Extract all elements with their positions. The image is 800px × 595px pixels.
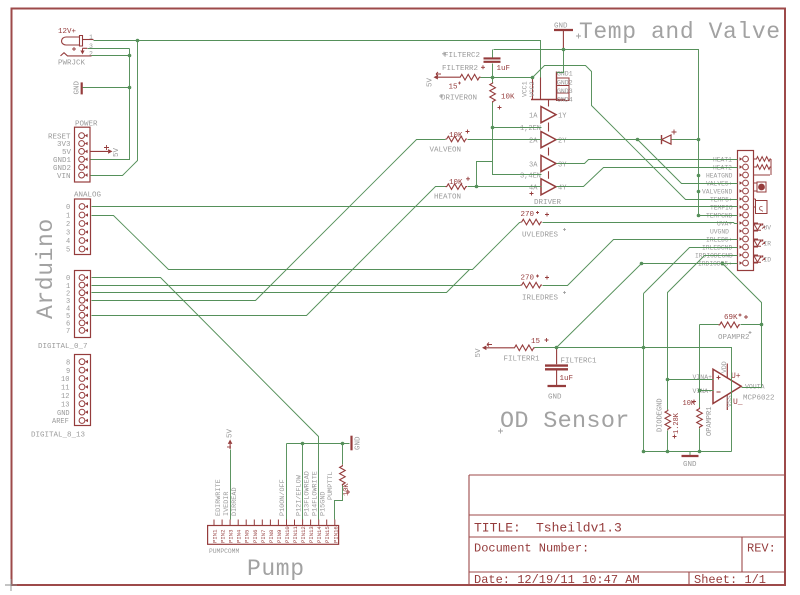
svg-text:TEMPGND: TEMPGND	[706, 213, 733, 220]
svg-text:0: 0	[66, 204, 70, 212]
svg-text:PIN7: PIN7	[260, 530, 267, 543]
wire GND: jack pin2	[92, 55, 130, 57]
svg-text:IRLEDGND: IRLEDGND	[702, 245, 732, 252]
svg-text:ID: ID	[764, 257, 772, 264]
svg-text:13: 13	[61, 401, 69, 409]
wire ground rail (OD)	[644, 451, 732, 453]
5V supply arrow at POWER	[90, 150, 108, 152]
svg-text:Tsheildv1.3: Tsheildv1.3	[536, 521, 622, 536]
svg-text:PUMPTTL: PUMPTTL	[327, 471, 335, 500]
svg-text:5V: 5V	[427, 77, 435, 87]
wire VOUTA	[742, 387, 762, 389]
svg-text:2: 2	[66, 221, 70, 229]
wire 2Y branch to VALVE5+	[638, 140, 738, 184]
svg-text:UV: UV	[764, 225, 772, 232]
wire DIGITAL0 to pump pin14	[92, 278, 319, 520]
svg-text:3A: 3A	[529, 161, 538, 169]
wire 2Y to diode	[557, 139, 662, 141]
svg-text:9: 9	[66, 368, 70, 376]
svg-text:HEATGND: HEATGND	[706, 173, 733, 180]
wire 4Y to HEAT2	[557, 168, 738, 187]
svg-text:GND: GND	[57, 410, 70, 418]
wire VINA+	[668, 379, 714, 381]
wire 3Y to HEAT1	[557, 160, 738, 164]
wire pump top rail	[287, 443, 350, 445]
LED IR	[754, 239, 766, 247]
wire VALVEON to 2A	[468, 139, 542, 141]
svg-text:7: 7	[66, 328, 70, 336]
resistor OPAMPR2 69K (feedback)	[719, 322, 741, 328]
svg-text:GND3: GND3	[557, 88, 573, 95]
svg-text:Arduino: Arduino	[33, 218, 59, 319]
svg-text:Document Number:: Document Number:	[474, 542, 589, 556]
wire pump P10 vertical	[286, 444, 288, 520]
svg-text:DIGITAL_8_13: DIGITAL_8_13	[31, 432, 86, 440]
svg-text:VDD: VDD	[721, 361, 728, 373]
svg-text:U+: U+	[731, 372, 741, 381]
svg-text:PIN3: PIN3	[228, 530, 235, 543]
svg-text:1uF: 1uF	[497, 65, 511, 73]
connector POWER	[75, 127, 91, 182]
wire UVLEDRES to UVA+	[543, 223, 738, 224]
svg-text:PIN9: PIN9	[276, 530, 283, 543]
driver buffer gate 1 (1A/1Y)	[541, 107, 556, 123]
wire 12V branch to VIN	[91, 41, 138, 176]
title block frame	[469, 475, 785, 585]
svg-text:VALVE5+: VALVE5+	[706, 181, 733, 188]
svg-text:FILTERR2: FILTERR2	[442, 65, 478, 73]
svg-text:PIN11: PIN11	[292, 526, 299, 543]
wire DIODEGND resistor bottom to rail	[667, 431, 669, 452]
svg-text:IVEDIR: IVEDIR	[223, 492, 231, 516]
svg-text:3,4EN: 3,4EN	[520, 173, 541, 181]
svg-text:GND2: GND2	[53, 165, 71, 173]
ground symbol GND (top, above driver)	[554, 30, 573, 49]
wire: 1,2EN	[493, 127, 542, 129]
svg-text:HEAT2: HEAT2	[713, 165, 732, 172]
svg-text:AREF: AREF	[52, 418, 69, 426]
svg-text:TEMP5+: TEMP5+	[710, 197, 733, 204]
op-amp U2 MCP6022	[713, 364, 741, 411]
svg-text:PIN14: PIN14	[316, 526, 323, 543]
connector DIGITAL_0_7	[75, 271, 91, 338]
svg-text:MCP6022: MCP6022	[743, 395, 775, 403]
svg-text:IRLED5+: IRLED5+	[706, 237, 733, 244]
connector ANALOG	[75, 199, 91, 255]
temperature sensor element	[754, 199, 768, 214]
svg-text:ANALOG: ANALOG	[74, 192, 102, 200]
svg-text:PUMPCOMM: PUMPCOMM	[209, 548, 239, 555]
wire PUMPTTL resistor	[335, 444, 343, 520]
svg-text:3V3: 3V3	[57, 141, 71, 149]
svg-text:2: 2	[89, 50, 93, 57]
connector DIGITAL_8_13	[75, 355, 91, 426]
svg-text:FILTERC1: FILTERC1	[561, 358, 598, 366]
wire ANALOG1 to UVLEDRES	[92, 216, 521, 270]
svg-text:P13FLOWREAD: P13FLOWREAD	[303, 471, 311, 516]
svg-text:PIN16: PIN16	[332, 526, 339, 543]
svg-text:2A: 2A	[529, 137, 538, 145]
wire FILTERR1 node	[535, 348, 732, 452]
wire pump 5V vertical	[230, 450, 232, 520]
svg-text:270: 270	[521, 211, 535, 219]
wire IRLEDRES to IRLED5+	[543, 240, 738, 286]
svg-text:IRLEDRES: IRLEDRES	[522, 295, 559, 303]
wire 12V: jack pin1 to driver VCC2	[94, 41, 541, 78]
svg-text:PIN4: PIN4	[236, 529, 243, 543]
svg-text:5V: 5V	[113, 147, 121, 157]
svg-text:VCC1: VCC1	[522, 81, 529, 97]
svg-text:DRIVERON: DRIVERON	[441, 95, 477, 103]
ground symbol GND (pump, rotated)	[350, 436, 352, 451]
ground symbol GND (left of PWRJCK area)	[82, 82, 83, 94]
svg-text:PIN6: PIN6	[252, 530, 259, 543]
svg-text:UVGND: UVGND	[710, 229, 729, 236]
wire DIGITAL2	[92, 270, 470, 293]
svg-text:15: 15	[449, 84, 459, 92]
svg-text:8: 8	[66, 359, 70, 367]
svg-text:RESET: RESET	[48, 133, 71, 141]
svg-text:4A: 4A	[529, 185, 538, 193]
wire: EN tie to HEATON node	[477, 162, 493, 187]
resistor IRLEDRES 270	[521, 282, 543, 288]
svg-text:10K: 10K	[449, 179, 463, 187]
svg-text:GND: GND	[355, 436, 363, 450]
resistor FILTERR1 15	[513, 345, 535, 351]
wire GND: jack pin3	[88, 48, 130, 50]
svg-text:PIN15: PIN15	[324, 526, 331, 543]
driver buffer gate 2 (2A/2Y)	[541, 132, 556, 148]
svg-text:U_: U_	[733, 398, 743, 407]
LED ID	[754, 255, 766, 263]
svg-text:FILTERC2: FILTERC2	[444, 52, 480, 60]
svg-text:DRIVER: DRIVER	[534, 199, 562, 207]
svg-text:HEATON: HEATON	[434, 194, 461, 202]
svg-text:1: 1	[89, 34, 93, 41]
svg-text:1: 1	[66, 213, 70, 221]
svg-text:PIN10: PIN10	[284, 526, 291, 543]
wire GND: vertical bus to GND1 of POWER	[91, 49, 130, 160]
resistor OPAMPR1 10K (vertical)	[697, 408, 703, 429]
svg-text:1.28K: 1.28K	[673, 412, 681, 434]
resistor UVLEDRES 270	[521, 219, 543, 225]
svg-text:11: 11	[61, 385, 69, 393]
svg-text:UVLEDRES: UVLEDRES	[522, 232, 559, 240]
svg-text:2Y: 2Y	[558, 137, 567, 145]
svg-text:PIN8: PIN8	[268, 530, 275, 543]
connector TEMP/VALVE header (right side, 14 pins)	[738, 151, 754, 271]
svg-text:TITLE:: TITLE:	[474, 521, 521, 536]
svg-text:OD Sensor: OD Sensor	[500, 408, 630, 435]
pump pin labels PIN1-PIN16 (rotated)	[212, 526, 340, 543]
svg-text:3: 3	[66, 230, 70, 238]
svg-text:OPAMPR1: OPAMPR1	[706, 407, 714, 436]
wire: pullup resistor to EN pins	[493, 103, 542, 175]
svg-text:5: 5	[66, 247, 70, 255]
wire DIGITAL1 to IRLEDRES	[92, 285, 521, 287]
wire pump P12 vertical	[302, 444, 304, 520]
svg-text:5V: 5V	[227, 428, 235, 438]
driver buffer gate 4 (4A/4Y)	[541, 179, 556, 195]
svg-text:IR: IR	[764, 241, 772, 248]
svg-text:DIRREAD: DIRREAD	[231, 487, 239, 516]
corner reference cross	[5, 579, 17, 591]
resistor R pullup 10K (vertical at driver)	[490, 82, 496, 103]
svg-text:VALVEON: VALVEON	[430, 147, 462, 155]
svg-text:GND: GND	[74, 80, 82, 94]
svg-text:DIGITAL_0_7: DIGITAL_0_7	[38, 343, 88, 351]
capacitor FILTERC1	[545, 348, 568, 385]
svg-text:Date: 12/19/11 10:47 AM: Date: 12/19/11 10:47 AM	[474, 573, 640, 587]
svg-text:PIN13: PIN13	[308, 526, 315, 543]
wire 5V wrap to TEMP5+	[533, 66, 738, 200]
svg-text:5V: 5V	[475, 348, 483, 358]
svg-text:10K: 10K	[501, 94, 515, 102]
svg-text:1A: 1A	[529, 113, 538, 121]
svg-text:3Y: 3Y	[558, 161, 567, 169]
svg-text:4: 4	[66, 238, 70, 246]
svg-text:12V+: 12V+	[58, 28, 77, 36]
svg-text:DIODEGND: DIODEGND	[657, 398, 665, 432]
svg-text:VALVEGND: VALVEGND	[702, 189, 732, 196]
capacitor FILTERC2	[484, 58, 501, 61]
svg-text:PIN5: PIN5	[244, 530, 251, 543]
svg-text:PWRJCK: PWRJCK	[58, 60, 86, 68]
svg-text:POWER: POWER	[75, 121, 98, 129]
svg-text:12: 12	[61, 393, 69, 401]
5V supply arrow (FILTERR1, pointing left)	[482, 343, 513, 351]
ground symbol GND (FILTERC1)	[548, 385, 567, 387]
wire IRDIODEGND to diode sense	[668, 256, 738, 410]
svg-text:10K: 10K	[343, 483, 351, 496]
wire GND: stub to driver GND pins	[557, 50, 564, 73]
svg-text:IRDIODE5+: IRDIODE5+	[698, 261, 732, 268]
svg-text:VCC2: VCC2	[529, 81, 536, 97]
wire 5V node: filter to VCC1	[481, 77, 533, 79]
wire ANALOG0 to TEMPIO	[92, 206, 738, 208]
LED UV	[754, 223, 766, 231]
svg-text:10K: 10K	[449, 132, 463, 140]
svg-text:VINA-: VINA-	[693, 388, 713, 395]
svg-text:10: 10	[61, 376, 69, 384]
svg-text:GND1: GND1	[557, 71, 573, 78]
wire GND: top rail	[494, 50, 738, 216]
wire feedback 69K left to VINA-	[700, 325, 719, 408]
svg-text:1,2EN: 1,2EN	[520, 125, 541, 133]
svg-text:69K: 69K	[724, 314, 738, 322]
svg-text:GND1: GND1	[53, 157, 72, 165]
svg-text:GND: GND	[683, 461, 697, 469]
5V supply arrow (FILTERR2, pointing left)	[434, 72, 460, 79]
svg-text:1Y: 1Y	[558, 112, 567, 120]
svg-text:GND: GND	[548, 394, 562, 402]
resistor PUMPTTL 10K (vertical)	[340, 465, 346, 486]
svg-text:GND4: GND4	[557, 97, 573, 104]
valve motor symbol	[754, 182, 767, 192]
wire GND: left GND symbol to bus	[83, 87, 130, 89]
driver buffer gate 3 (3A/3Y)	[541, 155, 556, 171]
resistor DIODEGND 1.28K (vertical)	[665, 410, 671, 431]
resistor HEATON 10K	[446, 184, 468, 190]
svg-text:UVA+: UVA+	[717, 221, 732, 228]
5V supply arrow (pump, pointing up)	[227, 440, 232, 450]
svg-text:Sheet: 1/1: Sheet: 1/1	[694, 573, 766, 587]
svg-text:HEAT1: HEAT1	[713, 157, 732, 164]
heater resistor elements (rows HEAT1/HEAT2)	[754, 157, 772, 175]
svg-text:VIN: VIN	[57, 173, 71, 181]
svg-text:P10ON/OFF: P10ON/OFF	[279, 479, 287, 516]
svg-text:15: 15	[531, 338, 541, 346]
svg-text:1uF: 1uF	[560, 375, 574, 383]
wire IRDIODE5+ row	[642, 263, 738, 265]
svg-text:4Y: 4Y	[558, 185, 567, 193]
svg-text:FILTERR1: FILTERR1	[504, 356, 541, 364]
svg-text:Pump: Pump	[247, 556, 305, 582]
wire: cap bottom to 5V node	[492, 64, 494, 83]
svg-text:REV:: REV:	[747, 542, 776, 556]
diode D1	[662, 130, 677, 145]
wire 5V: cap top to GND rail	[492, 50, 494, 58]
wire 5V to IRDIODE5+	[557, 264, 642, 348]
power jack PWRJCK	[61, 36, 94, 56]
wire 69K right to VOUTA	[741, 324, 762, 326]
driver IC U1 power pins VCC1 VCC2 GND1-GND4	[531, 72, 569, 179]
svg-text:5V: 5V	[62, 149, 72, 157]
svg-text:GND2: GND2	[557, 80, 573, 87]
wire DIGITAL5 to HEATON	[92, 187, 446, 316]
svg-text:IRDIODEGND: IRDIODEGND	[695, 253, 733, 260]
svg-text:GND: GND	[554, 23, 568, 31]
svg-text:OPAMPR2: OPAMPR2	[718, 334, 750, 342]
svg-text:PIN2: PIN2	[220, 530, 227, 543]
ground symbol GND (op-amp rail)	[682, 452, 699, 456]
wire diode to GND bus	[672, 139, 699, 141]
svg-text:PIN12: PIN12	[300, 526, 307, 543]
svg-text:TEMPIO: TEMPIO	[710, 205, 733, 212]
wire HEATON to 4A	[468, 186, 542, 188]
svg-text:EDIRWRITE: EDIRWRITE	[215, 479, 223, 516]
resistor VALVEON 10K	[446, 136, 468, 142]
svg-text:PIN1: PIN1	[212, 529, 219, 543]
wire DIGITAL3 to VALVEON	[92, 140, 446, 301]
svg-text:Temp and Valve: Temp and Valve	[579, 19, 781, 45]
wire IRDIODE5+ branch to op-amp output net	[723, 264, 762, 388]
wire vertical to rail x=643.5	[643, 294, 645, 452]
wire IRLEDGND loop	[644, 248, 738, 294]
connector PUMPCOMM (16 pins)	[208, 520, 339, 545]
svg-text:ς: ς	[759, 205, 764, 214]
wire OPAMPR1 bottom to rail	[699, 429, 701, 452]
resistor FILTERR2	[459, 74, 481, 80]
svg-text:270: 270	[521, 275, 535, 283]
